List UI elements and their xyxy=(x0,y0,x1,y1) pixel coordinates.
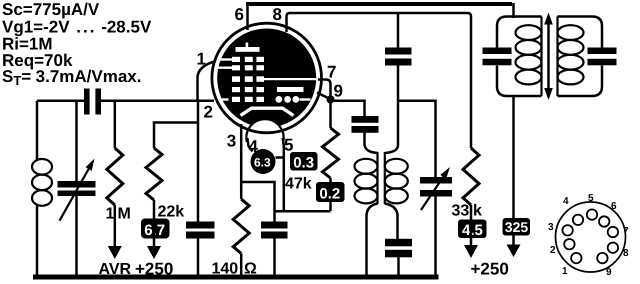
wire: node to CV2 xyxy=(398,101,436,177)
wire: pin5/47k bottom horizontal xyxy=(275,210,331,213)
tube V1 internal electrodes (white) xyxy=(216,43,317,103)
coupling arrow (T1) xyxy=(544,13,553,101)
inductor L1 (antenna coil) xyxy=(32,159,52,206)
capacitor C7 (T1 primary) xyxy=(483,48,512,66)
capacitor C2 xyxy=(186,222,215,278)
svg-text:22k: 22k xyxy=(158,204,185,221)
svg-text:k: k xyxy=(473,203,482,220)
tube socket diagram xyxy=(556,202,626,272)
svg-text:1: 1 xyxy=(197,50,206,69)
svg-text:2: 2 xyxy=(204,103,213,122)
wire: pin 7 lead xyxy=(318,80,331,98)
tube V1 envelope (filled) xyxy=(217,29,316,128)
spec text block xyxy=(2,0,152,88)
arrow to +250 xyxy=(147,200,161,259)
wire: IF2 secondary top lead xyxy=(385,101,398,153)
heater supply 6.3 (circle) xyxy=(251,149,276,174)
resistor R2 22k xyxy=(146,148,162,200)
variable capacitor CV1 xyxy=(58,101,96,277)
resistor R3 47k xyxy=(323,100,339,212)
annotation 4.5 (inverted) xyxy=(458,220,487,240)
socket pin numbers xyxy=(548,193,629,278)
wire: pin 6 lead xyxy=(246,3,249,31)
wire: pin 8 lead + rail B xyxy=(287,13,472,148)
svg-text:8: 8 xyxy=(623,248,629,259)
svg-text:3: 3 xyxy=(548,222,554,233)
resistor R5 33k xyxy=(463,148,479,205)
svg-text:ST= 3.7mA/Vmax.: ST= 3.7mA/Vmax. xyxy=(2,67,141,88)
svg-text:1: 1 xyxy=(562,266,568,277)
arrow to +250 (33k) xyxy=(464,205,478,258)
IF transformer T1 primary loop xyxy=(497,17,542,97)
IF transformer T1 secondary loop xyxy=(558,17,603,97)
svg-text:0.3: 0.3 xyxy=(293,155,314,172)
annotation 6.7 (inverted) xyxy=(141,219,170,239)
svg-text:1: 1 xyxy=(106,206,115,223)
svg-text:6: 6 xyxy=(611,201,617,212)
wire: IF2 secondary bottom to C6 xyxy=(385,204,398,240)
annotation 0.3 (inverted) xyxy=(290,152,318,172)
capacitor C3 (cathode bypass) xyxy=(261,222,288,278)
arrow down (325) xyxy=(507,245,521,258)
svg-text:6.3: 6.3 xyxy=(254,156,271,170)
wire: T1 primary bottom to 325 arrow xyxy=(512,96,515,246)
wire: pin 1 lead xyxy=(198,61,217,101)
variable capacitor CV2 xyxy=(420,167,452,277)
svg-text:3: 3 xyxy=(227,132,236,151)
resistor R1 1M xyxy=(107,101,123,205)
junction node (pins 7,9) xyxy=(327,96,335,104)
wire: pin 4 lead xyxy=(247,138,252,152)
svg-text:140: 140 xyxy=(212,261,239,278)
IF transformer T2 primary coil xyxy=(355,152,378,204)
wire: pin 3 lead down xyxy=(240,124,243,199)
svg-text:6: 6 xyxy=(235,5,244,24)
svg-text:Sc=775µA/V: Sc=775µA/V xyxy=(2,0,100,19)
annotation 325 (inverted) xyxy=(503,218,531,236)
wire: input node horizontal (grid wire to pins 1,2) xyxy=(37,99,84,102)
wire: 22k top connection xyxy=(154,123,198,149)
tube V1 heater dome (white cutout) xyxy=(246,119,283,142)
wire: pin 9 lead xyxy=(317,93,329,99)
capacitor C8 (T1 secondary) xyxy=(588,48,617,66)
resistor R4 140 xyxy=(233,199,249,254)
capacitor C4 xyxy=(352,116,379,133)
svg-text:5: 5 xyxy=(588,193,594,204)
wire: heater link to pin5 wire xyxy=(276,156,285,159)
svg-text:M: M xyxy=(118,206,131,223)
svg-text:9: 9 xyxy=(334,82,343,101)
svg-text:47k: 47k xyxy=(285,176,312,193)
svg-text:5: 5 xyxy=(284,136,293,155)
capacitor C1 (input coupling) xyxy=(84,89,101,115)
svg-text:AVR: AVR xyxy=(99,261,132,278)
svg-text:7: 7 xyxy=(623,226,629,237)
svg-text:+250: +250 xyxy=(135,260,173,279)
svg-text:33: 33 xyxy=(452,203,470,220)
svg-text:8: 8 xyxy=(273,5,282,24)
ground bus wire (bottom) xyxy=(33,275,439,280)
svg-text:2: 2 xyxy=(550,245,556,256)
svg-text:9: 9 xyxy=(606,267,612,278)
wire: rail A (plate supply top) xyxy=(246,2,512,6)
svg-text:4.5: 4.5 xyxy=(462,222,483,239)
tube V1 outer circle xyxy=(212,23,322,133)
wire: antenna branch down xyxy=(36,101,39,160)
T1 primary coil xyxy=(516,17,542,97)
T1 secondary coil xyxy=(558,17,584,97)
annotation 0.2 (inverted) xyxy=(316,182,345,202)
capacitor C6 xyxy=(385,239,412,277)
wire: antenna coil to bus xyxy=(36,204,39,277)
arrow to AVR xyxy=(108,205,122,259)
capacitor C5 (from rail B) xyxy=(385,13,412,101)
svg-text:Ω: Ω xyxy=(244,261,257,278)
IF transformer T2 secondary coil xyxy=(385,152,408,204)
wire: cathode node horizontal xyxy=(241,182,274,222)
svg-text:4: 4 xyxy=(563,196,569,207)
tube V1 cathode (white trapezoid) xyxy=(241,108,294,115)
svg-text:+250: +250 xyxy=(471,260,509,279)
svg-text:325: 325 xyxy=(505,219,529,235)
wire: pin 5 lead down xyxy=(283,138,284,211)
wire: IF2 primary to bus xyxy=(367,204,378,278)
wire: C4 to IF2 primary xyxy=(365,133,378,153)
svg-text:0.2: 0.2 xyxy=(319,185,340,202)
wire: pin9 node to C4 xyxy=(331,101,365,116)
wire: grid node down (pins 1,2 bias) xyxy=(197,101,200,222)
